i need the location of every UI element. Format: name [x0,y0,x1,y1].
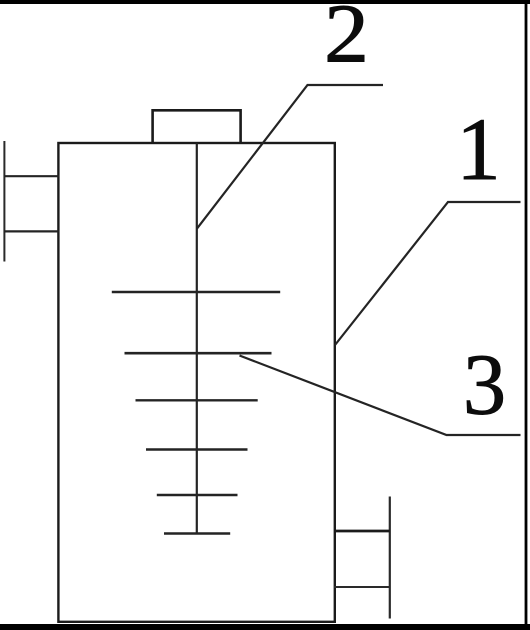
right outlet pipe top wall [334,530,390,533]
svg-text:1: 1 [456,101,501,199]
right outlet pipe bottom wall [334,586,390,588]
leader line for label 1 [335,202,521,345]
agitator shaft 2 [196,143,198,534]
right outlet flange plate [389,497,391,619]
svg-text:3: 3 [463,337,506,433]
agitator blade 6 [164,532,230,535]
bottom border bar [0,624,530,630]
top nozzle [153,110,241,143]
top border bar [0,0,530,4]
left inlet pipe bottom wall [4,230,59,232]
agitator blade 3 [136,399,258,401]
agitator blade 5 [157,494,238,497]
left inlet flange plate [3,141,5,262]
leader line for label 2 [197,85,383,229]
left inlet pipe top wall [4,175,59,177]
svg-text:2: 2 [324,0,369,81]
leader line for label 3 [240,356,521,436]
agitator blade 1 [112,291,280,294]
vessel body (tank) [58,143,334,622]
agitator blade 4 [146,448,248,450]
agitator blade 2 [125,352,272,355]
right border line [525,0,528,630]
